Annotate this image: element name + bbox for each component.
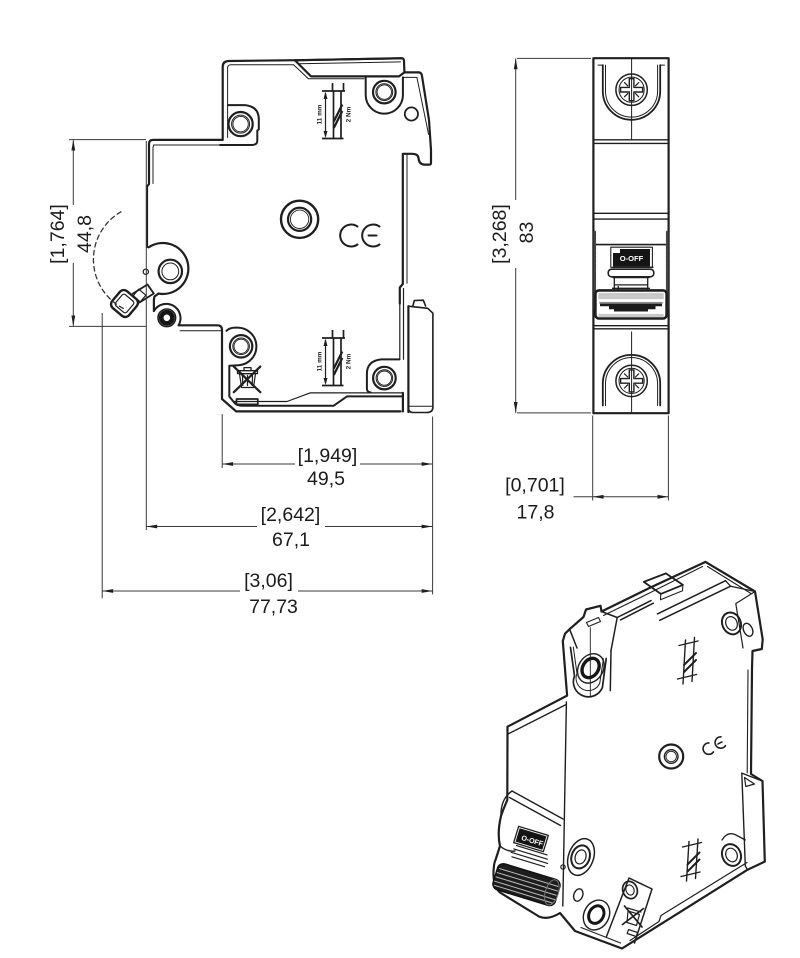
side view: bottom-left screw hole [230, 335, 252, 357]
iso: foot block [607, 878, 653, 943]
front view: edge ribs [593, 232, 596, 308]
iso: ear above bottom-right dimple [722, 834, 745, 840]
svg-text:2 Nm: 2 Nm [346, 106, 353, 122]
side view: edge below toggle [154, 294, 159, 311]
side view: lower-left inner line [180, 330, 221, 332]
iso: top face ridge lines [657, 581, 730, 621]
iso: DIN clip block [742, 773, 763, 870]
side view: top-right terminal pocket [366, 77, 403, 113]
svg-text:[3,268]: [3,268] [489, 204, 511, 264]
side view: top lip [295, 58, 404, 72]
side view: bottom-left screw pocket [227, 328, 403, 406]
iso: funnel dark hole [579, 655, 603, 681]
iso: small ellipse below lug [572, 887, 585, 902]
side view: top inner line [228, 65, 293, 138]
iso: toggle housing arcs [500, 791, 515, 851]
dimension 77,73 line [102, 590, 432, 592]
side view: pocket tick at wall [396, 358, 399, 360]
dimension 44,8 line [72, 140, 74, 325]
iso: bottom-left ear lug [563, 835, 599, 879]
iso: toggle recess band [510, 791, 564, 826]
side view: bottom-right screw pocket [367, 359, 400, 392]
side view: top lip inner line [298, 62, 401, 64]
iso: top face hole [644, 573, 683, 594]
dimension 17,8 line [574, 496, 669, 498]
side view: diagonal inner line [293, 65, 364, 79]
front view: flange under label [613, 266, 653, 268]
svg-text:O-OFF: O-OFF [620, 254, 644, 263]
front view: OFF label [613, 249, 650, 267]
dimension arrowheads [71, 58, 668, 593]
iso: mid band step [508, 705, 566, 735]
side view: terminal callout bottom (11mm / 2Nm) [322, 330, 345, 386]
iso: outer silhouette [493, 562, 764, 949]
iso: block top slot [587, 618, 601, 627]
dimension 83 witness lines [517, 58, 591, 413]
iso: terminal block front top edge [570, 629, 611, 690]
iso: small dot on face [561, 865, 565, 869]
side view: WEEE bin lid [238, 368, 258, 374]
side view: top-left screw pocket [220, 105, 259, 145]
svg-text:2 Nm: 2 Nm [346, 353, 353, 369]
iso: small ellipse near corner [741, 622, 755, 638]
iso: block centerline [589, 628, 591, 697]
iso: terminal symbol bottom [681, 839, 702, 881]
iso: DIN clip notch [745, 778, 755, 787]
side view: top-left screw hole [229, 112, 253, 136]
front view: top phillips screw [616, 74, 647, 105]
iso: foot screw dimple [620, 879, 640, 900]
side view: diagonal top step [295, 60, 431, 303]
side view: small circle near top-right [405, 107, 418, 120]
side view: toggle lever latch detail [133, 289, 146, 302]
front view: horizontal section lines [593, 140, 668, 144]
svg-text:67,1: 67,1 [272, 529, 310, 551]
svg-text:49,5: 49,5 [307, 468, 345, 490]
iso: top-left edge inner lip lines [604, 567, 752, 616]
iso: foot white bar [627, 930, 637, 937]
side view: small rectangle under WEEE [237, 399, 258, 404]
front view: top terminal pocket [603, 65, 660, 120]
iso: top-right screw dimple [719, 609, 745, 637]
side view: small dark ring hole [158, 309, 176, 327]
side view: inner top line right segment [403, 77, 429, 134]
side view: pivot boss arc [149, 243, 189, 294]
svg-text:11 mm: 11 mm [316, 104, 323, 124]
side view: WEEE cross [234, 367, 260, 393]
side view: main outline upper left [147, 58, 403, 247]
svg-text:[1,949]: [1,949] [298, 445, 358, 467]
svg-text:[2,642]: [2,642] [261, 504, 321, 526]
side view: DIN clip block [408, 306, 433, 412]
iso: corner wedge edge [736, 592, 755, 649]
side view: pivot hole [159, 260, 182, 283]
side view: CE marking [340, 225, 379, 247]
front view: bottom phillips screw [616, 365, 647, 396]
iso: bottom inner edge [630, 863, 747, 941]
svg-text:17,8: 17,8 [517, 502, 555, 524]
svg-text:77,73: 77,73 [249, 596, 298, 618]
iso: DIN channel inner line [747, 669, 752, 774]
side view: bottom-right screw hole [373, 367, 396, 390]
svg-text:[1,764]: [1,764] [47, 204, 69, 264]
front view: toggle handle [595, 290, 666, 318]
front view: neck [613, 278, 650, 291]
front view: bottom terminal pocket [603, 355, 660, 406]
iso: CE marking [701, 736, 726, 756]
iso: toggle grip [491, 862, 562, 907]
svg-text:[3,06]: [3,06] [244, 570, 293, 592]
iso: front/right face boundary [563, 702, 567, 906]
iso: terminal symbol top [678, 638, 699, 685]
dimension 83 line [515, 58, 517, 413]
side view: toggle lever neck [133, 285, 154, 303]
iso: funnel middle ring [572, 649, 609, 688]
side view: top-right screw hole [373, 81, 396, 104]
svg-text:11 mm: 11 mm [316, 351, 323, 371]
iso: bottom funnel arcs [578, 895, 615, 934]
side view: back wall below jog [400, 289, 404, 360]
front view: OFF label outline [611, 247, 653, 267]
side view: foot right vertical [402, 393, 404, 412]
iso: terminal block top edges [602, 601, 654, 651]
side view: inner step line (top-left) [153, 145, 220, 184]
side view: toggle lever head [109, 288, 140, 319]
svg-text:83: 83 [516, 222, 538, 244]
side view: WEEE bin body [240, 374, 256, 388]
front view: bottom centerline [631, 332, 633, 413]
iso: center circle [659, 745, 683, 769]
svg-text:44,8: 44,8 [74, 215, 96, 253]
dimension witness verticals [102, 141, 432, 598]
side view: small dot left of pivot [143, 269, 148, 274]
dimension 67,1 line [146, 526, 432, 528]
side view: DIN clip inner bottom line [410, 405, 433, 407]
front view: top centerline [631, 58, 633, 140]
side view: small hole boss arc [154, 304, 181, 325]
iso: WEEE mark [623, 906, 644, 927]
svg-text:[0,701]: [0,701] [505, 475, 565, 497]
side view: center circle [281, 201, 318, 238]
iso: toggle bellows [510, 845, 550, 868]
front view: body rectangle [593, 58, 668, 413]
side view: dashed travel arc of toggle [93, 212, 123, 309]
side view: terminal callout top (11mm / 2Nm) [322, 83, 345, 139]
front view: bell [608, 269, 654, 277]
side view: bottom step lines [234, 393, 403, 402]
side view: lower-left outline [179, 325, 401, 411]
dimension 49,5 line [222, 463, 432, 465]
iso: toggle label [514, 826, 549, 851]
side view: back wall inner line [406, 155, 408, 284]
iso: bottom-right screw dimple [719, 841, 745, 869]
dimension 44,8 witness lines [69, 140, 146, 327]
side view: DIN clip top bump [413, 300, 426, 306]
iso: terminal U pocket [571, 648, 607, 697]
